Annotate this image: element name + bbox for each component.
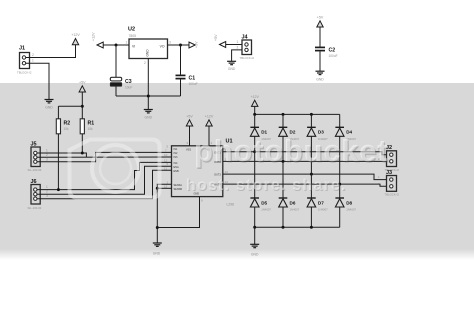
diode D8 — [335, 184, 356, 227]
svg-text:J6: J6 — [31, 179, 37, 185]
svg-text:2: 2 — [32, 53, 34, 57]
svg-text:J3: J3 — [386, 170, 392, 176]
power +12V (U2 input) — [92, 32, 104, 48]
wire C3 to gnd bus — [115, 86, 117, 96]
diode D1 — [250, 114, 271, 151]
wire J4 pin1 — [226, 44, 242, 46]
svg-text:+12V: +12V — [71, 33, 80, 37]
svg-text:100uF: 100uF — [189, 82, 198, 86]
wire C1 to gnd bus — [180, 79, 182, 96]
connector J4 — [240, 35, 255, 61]
svg-text:GND: GND — [316, 78, 324, 82]
top bus +12V — [253, 113, 340, 116]
svg-text:U2: U2 — [128, 27, 135, 33]
wire J5 pin1 step — [37, 152, 86, 158]
diode D7 — [307, 174, 328, 227]
bottom bus to ground — [253, 226, 340, 245]
svg-text:IN4: IN4 — [174, 162, 179, 165]
svg-text:D5: D5 — [261, 200, 267, 205]
svg-text:R2: R2 — [64, 121, 71, 127]
wire to C1 — [180, 45, 182, 75]
svg-text:GND: GND — [45, 106, 53, 110]
svg-text:1N4007: 1N4007 — [290, 208, 300, 212]
svg-text:1N4007: 1N4007 — [318, 208, 328, 212]
connector J2 — [385, 145, 400, 172]
wire +12V to top bus — [254, 106, 256, 114]
wire R2 top — [58, 106, 82, 119]
svg-text:10k: 10k — [64, 127, 70, 131]
svg-text:2: 2 — [46, 190, 48, 194]
wire C2 top — [319, 27, 321, 47]
svg-text:GND: GND — [145, 116, 153, 120]
svg-text:SENSB: SENSB — [174, 188, 183, 191]
ground (U1) — [153, 243, 162, 256]
diode D6 — [279, 161, 300, 227]
power +5V (C2) — [317, 16, 324, 28]
wire OUT2 to J2 pin2 — [223, 160, 387, 163]
connector J1 — [17, 46, 32, 75]
svg-text:IN2: IN2 — [174, 152, 179, 155]
ground (C2) — [316, 71, 325, 81]
svg-text:J4: J4 — [242, 35, 249, 41]
connector J3 — [385, 170, 400, 197]
wire to C3 — [115, 45, 117, 78]
svg-text:IN1: IN1 — [174, 148, 179, 151]
svg-text:C3: C3 — [125, 79, 132, 85]
U2 pin numbers — [126, 41, 172, 66]
resistor R2 — [56, 119, 70, 134]
power +12V (U1) — [205, 115, 214, 127]
svg-text:+5V: +5V — [214, 34, 218, 41]
svg-text:J1: J1 — [19, 46, 25, 52]
wire SENSA — [157, 184, 171, 188]
wire OUT1 to J2 pin1 — [223, 150, 387, 154]
svg-text:+5V: +5V — [195, 41, 199, 48]
svg-text:SENSA: SENSA — [174, 184, 183, 187]
wire SENSB — [156, 187, 172, 190]
wire U1 VSS — [189, 126, 191, 146]
svg-text:15: 15 — [164, 184, 168, 188]
wire OUT3 to J3 pin1 — [223, 173, 387, 180]
svg-text:+12V: +12V — [92, 32, 96, 41]
wire J1 pin1 to ground — [26, 63, 49, 99]
svg-text:C2: C2 — [329, 48, 336, 54]
svg-text:R1: R1 — [88, 121, 95, 127]
diode D2 — [279, 114, 300, 161]
svg-text:1N4007: 1N4007 — [346, 208, 356, 212]
gray background band — [0, 83, 474, 260]
svg-text:3: 3 — [46, 194, 48, 198]
U1 left pin labels — [174, 148, 183, 191]
svg-text:2: 2 — [144, 61, 146, 65]
svg-text:D6: D6 — [290, 200, 296, 205]
power +5V (J4) — [214, 34, 226, 48]
wire J1 pin2 to +12V — [26, 45, 76, 58]
svg-text:11: 11 — [164, 166, 167, 170]
svg-text:1: 1 — [46, 185, 48, 189]
svg-text:D7: D7 — [318, 200, 324, 205]
svg-text:1N4007: 1N4007 — [261, 208, 271, 212]
svg-text:+5V: +5V — [317, 16, 324, 20]
diode D5 — [250, 152, 271, 228]
wire U1 VS — [208, 126, 210, 146]
diode D3 — [307, 114, 328, 174]
wire J5 pin2 to U1 IN2 — [37, 156, 172, 158]
wire OUT4 to J3 pin2 — [223, 183, 387, 187]
wire J6 pin2 to U1 ENA — [37, 166, 172, 194]
svg-text:VO: VO — [160, 45, 165, 49]
svg-text:VI: VI — [132, 45, 135, 49]
wire C2 bottom — [319, 51, 321, 71]
svg-text:TBLOCK-I2: TBLOCK-I2 — [17, 71, 32, 75]
svg-text:TBLOCK-I2: TBLOCK-I2 — [385, 193, 400, 197]
svg-text:IN3: IN3 — [174, 156, 179, 159]
power +12V (J1) — [71, 33, 80, 45]
power +5V (pullups) — [79, 81, 86, 93]
ground (J4) — [227, 61, 236, 71]
svg-text:3: 3 — [46, 157, 48, 161]
wire J4 pin2 to ground — [232, 50, 242, 61]
svg-text:L298: L298 — [227, 203, 235, 207]
ground (U2) — [144, 110, 153, 120]
svg-text:photobucket: photobucket — [194, 133, 388, 168]
svg-text:GND: GND — [228, 67, 236, 71]
power +5V (U1) — [186, 115, 193, 127]
svg-text:ENA: ENA — [174, 166, 179, 169]
svg-text:2: 2 — [237, 45, 239, 49]
svg-text:7805: 7805 — [129, 34, 137, 38]
ground (J1) — [45, 100, 54, 110]
J6 pin numbers — [46, 185, 48, 198]
svg-text:C1: C1 — [189, 76, 196, 82]
wire U2 output — [168, 44, 190, 47]
wire R2 to J6 pin1 — [57, 134, 59, 190]
U1 right pin labels — [214, 151, 221, 186]
connector J6 — [28, 179, 42, 210]
J4 pin numbers — [237, 40, 239, 49]
svg-text:VSS: VSS — [186, 149, 191, 152]
wire SENS to ground — [156, 188, 159, 243]
J5 pin numbers — [46, 149, 48, 162]
svg-text:13: 13 — [225, 170, 229, 174]
svg-text:SIL-100-03: SIL-100-03 — [28, 168, 42, 172]
U1 pin numbers — [164, 141, 228, 203]
wire U1 GND pin — [157, 197, 199, 228]
svg-text:10k: 10k — [88, 127, 94, 131]
connector J5 — [28, 142, 42, 173]
svg-text:GND: GND — [153, 252, 161, 256]
svg-text:GND: GND — [145, 49, 149, 57]
svg-text:10uF: 10uF — [125, 86, 132, 90]
svg-text:100uF: 100uF — [329, 54, 338, 58]
watermark text photobucket — [186, 133, 389, 195]
U1 top/bottom pin labels — [186, 149, 210, 196]
wire U2 ground bus — [116, 59, 181, 110]
power +5V (U2 output) — [189, 41, 199, 48]
wire R1 to J5 pin1 — [81, 134, 83, 153]
svg-text:+5V: +5V — [79, 81, 86, 85]
J2/J3 wire pin numbers — [378, 147, 380, 186]
svg-text:+5V: +5V — [186, 115, 193, 119]
svg-text:J5: J5 — [31, 142, 37, 148]
svg-text:1: 1 — [237, 40, 239, 44]
wire J5 pin3 to U1 IN1 — [37, 152, 172, 161]
svg-text:1: 1 — [46, 149, 48, 153]
wire +5V to R1 — [81, 92, 84, 119]
driver U1 box — [172, 139, 235, 207]
power +12V (diodes) — [250, 95, 259, 106]
svg-text:SIL-100-03: SIL-100-03 — [28, 206, 42, 210]
regulator U2 box — [128, 27, 168, 59]
svg-text:TBLOCK-I2: TBLOCK-I2 — [240, 56, 255, 60]
svg-text:GND: GND — [251, 253, 259, 257]
wire J6 pin1 to U1 IN4 — [37, 162, 172, 191]
svg-text:+12V: +12V — [205, 115, 214, 119]
J1 pin numbers — [32, 53, 34, 63]
wire J6 pin3 to U1 ENB — [37, 170, 172, 198]
capacitor C3 — [110, 77, 132, 89]
svg-text:+12V: +12V — [250, 95, 259, 99]
svg-text:ENB: ENB — [174, 170, 179, 173]
svg-text:host. store. share.: host. store. share. — [186, 177, 347, 194]
resistor R1 — [80, 119, 94, 134]
svg-text:1: 1 — [32, 59, 34, 63]
svg-text:1: 1 — [126, 41, 128, 45]
capacitor C2 — [315, 47, 338, 58]
capacitor C1 — [176, 75, 198, 86]
svg-text:D8: D8 — [346, 200, 352, 205]
diode D4 — [335, 114, 356, 184]
watermark camera logo — [70, 140, 160, 198]
ground (diodes) — [250, 244, 259, 256]
svg-text:10: 10 — [164, 153, 168, 157]
wire U2 input — [103, 44, 129, 47]
svg-text:3: 3 — [169, 41, 171, 45]
